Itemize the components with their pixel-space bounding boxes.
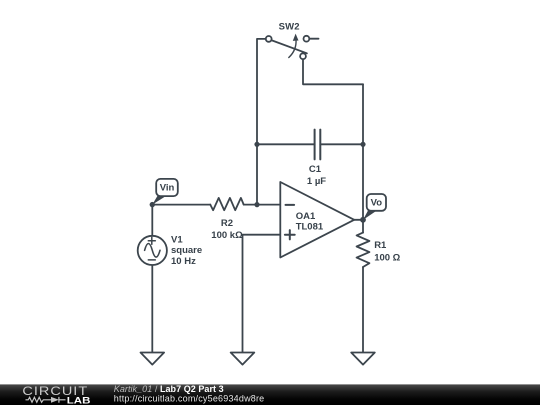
voltage source V1 plus mark (148, 237, 155, 244)
voltage source V1 circle (138, 236, 167, 265)
wire: op-amp plus input down to ground (243, 235, 281, 353)
junction dot: Vin node (150, 202, 155, 207)
svg-text:100 Ω: 100 Ω (374, 253, 400, 264)
svg-text:V1: V1 (171, 234, 183, 245)
svg-text:http://circuitlab.com/cy5e6934: http://circuitlab.com/cy5e6934dw8re (114, 394, 265, 404)
wire: capacitor left lead (257, 143, 315, 145)
svg-text:10 Hz: 10 Hz (171, 256, 196, 267)
resistor R1 (357, 233, 370, 267)
wire: switch open throw stub (309, 38, 318, 40)
wire: right vertical from top to R1 (362, 84, 364, 232)
svg-text:OA1: OA1 (296, 211, 316, 222)
node Vin flag (152, 179, 178, 205)
capacitor C1 left plate (314, 130, 316, 160)
CircuitLab logo symbol (resistor + diode) (26, 397, 66, 403)
svg-text:SW2: SW2 (279, 22, 300, 33)
wire: capacitor right lead (320, 143, 363, 145)
switch SW2 blade (271, 40, 307, 53)
ground symbol (V1) (141, 353, 165, 365)
svg-text:Vo: Vo (371, 198, 383, 209)
svg-text:C1: C1 (309, 164, 322, 175)
ground symbol (R1) (351, 353, 375, 365)
junction dot: cap right (360, 142, 365, 147)
node Vo flag (363, 194, 386, 220)
wire: op-amp output stub (354, 219, 363, 221)
wire: switch left terminal to left vertical (257, 39, 266, 205)
svg-text:1 µF: 1 µF (307, 176, 326, 187)
svg-text:Kartik_01 / Lab7 Q2 Part 3: Kartik_01 / Lab7 Q2 Part 3 (114, 384, 224, 394)
junction dot: Vo node (360, 217, 366, 223)
svg-text:LAB: LAB (67, 395, 91, 405)
switch SW2 actuator arrow (289, 40, 296, 58)
footer bar (0, 384, 540, 405)
ground symbol (non-inverting input) (231, 353, 255, 365)
voltage source V1 sine (145, 244, 160, 258)
junction dot: inverting node (254, 202, 259, 207)
svg-text:R2: R2 (221, 218, 233, 229)
wire: R1 bottom to ground (362, 267, 364, 353)
wire: main input net Vin to op-amp minus (152, 204, 210, 206)
wire: V1 bottom to ground (151, 265, 153, 353)
resistor R2 (210, 198, 243, 210)
switch SW2 left terminal (266, 36, 272, 42)
op-amp plus symbol (285, 230, 295, 239)
junction dot: cap left (254, 142, 259, 147)
switch SW2 pole terminal (300, 53, 306, 59)
op-amp minus symbol (286, 204, 295, 206)
capacitor C1 right plate (319, 130, 321, 160)
switch SW2 right throw terminal (304, 36, 310, 42)
svg-text:Vin: Vin (160, 183, 175, 194)
svg-text:TL081: TL081 (296, 221, 324, 232)
wire: switch pole down and across to right vertical (303, 59, 363, 84)
svg-text:100 kΩ: 100 kΩ (211, 230, 243, 241)
svg-text:square: square (171, 245, 202, 256)
wire: Vin node down to V1 top (151, 205, 153, 236)
wire (244, 204, 281, 206)
voltage source V1 minus mark (148, 259, 155, 261)
op-amp OA1 triangle (280, 182, 354, 258)
svg-text:R1: R1 (374, 240, 387, 251)
